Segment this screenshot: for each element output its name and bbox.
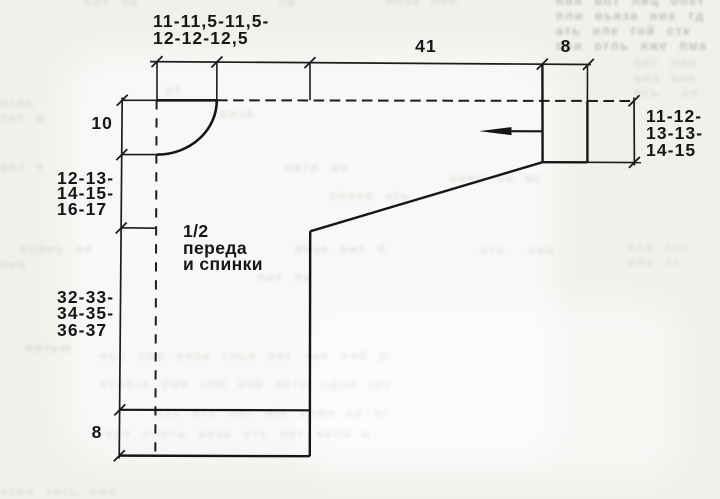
- bleed-through text top right: [556, 0, 720, 58]
- dashed top line: [217, 99, 634, 102]
- label 10: [88, 115, 113, 131]
- bleed-through text right column mid: [634, 56, 720, 102]
- shoulder extension to dim line: [122, 99, 157, 101]
- extension line at neck left: [156, 62, 158, 101]
- neckline curve: [157, 100, 217, 154]
- label neck widths: [153, 13, 269, 47]
- dashed center front line: [155, 100, 156, 456]
- tick top dim at x217: [211, 57, 222, 68]
- extension line at neck right / shoulder end: [216, 62, 218, 100]
- tick right dim top: [629, 95, 640, 106]
- shoulder line: [157, 99, 217, 102]
- arrow shaft: [488, 130, 542, 132]
- arrow head: [479, 127, 511, 135]
- tick top dim at x542: [537, 59, 548, 70]
- left dimension line: [119, 98, 122, 459]
- extension line at body right edge: [309, 63, 311, 101]
- label armhole depths right: [646, 108, 703, 159]
- tick left dim at bottom: [114, 450, 125, 461]
- label left lower sizes: [57, 289, 114, 338]
- top dimension line: [150, 62, 591, 65]
- tick top dim at x588: [583, 59, 594, 70]
- bleed-through middle faint words: [165, 83, 200, 98]
- right dimension line: [633, 98, 635, 166]
- tick top dim at x310: [305, 57, 316, 68]
- bleed-through long rows lower body: [100, 349, 390, 364]
- sleeve bottom edge: [543, 161, 588, 164]
- tick left dim at neck bottom: [116, 149, 127, 160]
- tick left dim at underarm: [116, 223, 127, 234]
- label 41: [410, 38, 442, 54]
- label 1/2 переда и спинки: [183, 223, 263, 273]
- hem line: [120, 409, 310, 412]
- bleed-through mark top middle: [278, 0, 308, 10]
- label left upper sizes: [57, 171, 114, 218]
- bottom line: [119, 454, 309, 457]
- bleed-through text right column bottom: [628, 240, 718, 272]
- body right vertical edge: [309, 231, 312, 456]
- extension line right of sleeve: [586, 64, 588, 100]
- label 8 bottom: [89, 424, 105, 440]
- sleeve right vertical edge: [586, 101, 588, 163]
- raglan diagonal: [310, 162, 542, 231]
- bleed-through text top middle right: [386, 0, 471, 12]
- bleed-through text top left: [84, 0, 154, 11]
- tick top dim at x157: [152, 56, 163, 67]
- neck bottom extension: [122, 154, 159, 156]
- tick left dim at shoulder: [117, 95, 128, 106]
- paper wash over diagram area: [62, 52, 557, 460]
- sleeve left vertical edge: [541, 64, 544, 162]
- sleeve bottom extension to right dim: [587, 161, 641, 163]
- tick left dim at hem top: [114, 404, 125, 415]
- tick right dim bottom: [629, 157, 640, 168]
- label 8 top: [556, 38, 576, 54]
- underarm extension: [121, 227, 156, 229]
- bleed-through left edge pieces: [0, 96, 60, 128]
